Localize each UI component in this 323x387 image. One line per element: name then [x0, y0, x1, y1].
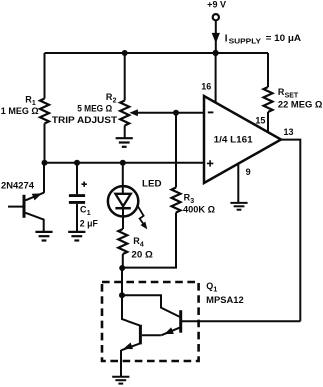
- svg-text:1/4 L161: 1/4 L161: [214, 134, 254, 145]
- svg-text:SET: SET: [285, 92, 299, 99]
- svg-text:1 MEG Ω: 1 MEG Ω: [1, 106, 39, 116]
- svg-text:22 MEG Ω: 22 MEG Ω: [278, 100, 323, 110]
- svg-text:SUPPLY: SUPPLY: [229, 37, 262, 46]
- svg-text:9: 9: [246, 167, 251, 177]
- svg-text:MPSA12: MPSA12: [206, 295, 244, 305]
- svg-text:TRIP ADJUST: TRIP ADJUST: [52, 115, 118, 125]
- svg-text:16: 16: [201, 82, 211, 92]
- svg-text:+9 V: +9 V: [207, 0, 226, 9]
- svg-text:15: 15: [255, 116, 265, 126]
- svg-text:2: 2: [113, 97, 117, 104]
- svg-text:13: 13: [284, 127, 294, 137]
- svg-text:5 MEG Ω: 5 MEG Ω: [77, 103, 112, 113]
- svg-text:2N4274: 2N4274: [1, 181, 34, 191]
- svg-text:1: 1: [87, 210, 91, 217]
- svg-text:400K Ω: 400K Ω: [183, 205, 215, 215]
- svg-text:4: 4: [140, 242, 144, 249]
- svg-text:2 μF: 2 μF: [80, 219, 98, 229]
- svg-text:LED: LED: [142, 179, 162, 189]
- svg-text:I: I: [225, 33, 228, 44]
- svg-text:1: 1: [213, 286, 217, 293]
- svg-text:Q: Q: [206, 281, 213, 291]
- svg-text:20 Ω: 20 Ω: [131, 249, 152, 259]
- svg-text:= 10 μA: = 10 μA: [266, 33, 302, 43]
